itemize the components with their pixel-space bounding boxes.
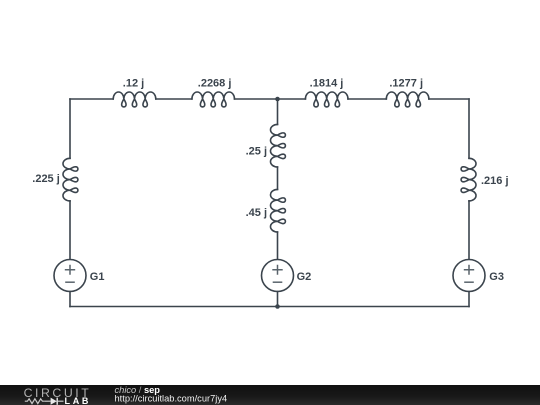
wire top rail right segment bbox=[429, 98, 469, 100]
wire middle branch top bbox=[277, 99, 279, 124]
source G3 bbox=[453, 260, 485, 292]
logo resistor zigzag bbox=[25, 398, 45, 403]
svg-text:G1: G1 bbox=[90, 271, 105, 283]
wire G1 to bottom rail bbox=[69, 292, 71, 307]
svg-text:.1277 j: .1277 j bbox=[389, 77, 423, 89]
source G1 bbox=[54, 260, 86, 292]
inductor L3 .1814 j bbox=[305, 92, 348, 107]
wire left rail lower bbox=[69, 201, 71, 260]
inductor L8 .216 j bbox=[461, 158, 476, 201]
svg-text:.216 j: .216 j bbox=[481, 175, 509, 187]
svg-text:http://circuitlab.com/cur7jy4: http://circuitlab.com/cur7jy4 bbox=[115, 393, 228, 403]
wire right rail upper bbox=[468, 99, 470, 158]
inductor L1 .12 j bbox=[113, 92, 156, 107]
wire top rail between L3 and L4 bbox=[348, 98, 386, 100]
wire middle branch between coils bbox=[277, 167, 279, 189]
inductor L7 .45 j bbox=[271, 189, 286, 232]
wire G3 to bottom rail bbox=[468, 292, 470, 307]
svg-text:LAB: LAB bbox=[65, 396, 92, 405]
svg-text:G3: G3 bbox=[489, 271, 504, 283]
node junction top middle bbox=[275, 97, 280, 102]
node junction bottom middle bbox=[275, 304, 280, 309]
logo diode triangle bbox=[51, 397, 57, 404]
svg-text:.2268 j: .2268 j bbox=[198, 77, 232, 89]
inductor L5 .225 j bbox=[63, 158, 78, 201]
logo diode cathode bar bbox=[56, 397, 58, 404]
svg-text:.225 j: .225 j bbox=[32, 173, 60, 185]
wire top rail between L2 and L3 (through node) bbox=[235, 98, 306, 100]
inductor L2 .2268 j bbox=[192, 92, 235, 107]
svg-text:.45 j: .45 j bbox=[246, 207, 267, 219]
wire G2 to bottom rail bbox=[277, 292, 279, 307]
wire left rail upper bbox=[69, 99, 71, 158]
svg-text:.25 j: .25 j bbox=[246, 145, 267, 157]
svg-text:.1814 j: .1814 j bbox=[310, 77, 344, 89]
logo wire diode to LAB bbox=[58, 400, 64, 402]
svg-text:G2: G2 bbox=[297, 271, 312, 283]
inductor L4 .1277 j bbox=[386, 92, 429, 107]
source G2 bbox=[262, 260, 294, 292]
footer bar bbox=[0, 385, 540, 405]
wire top rail left segment bbox=[70, 98, 113, 100]
wire bottom rail bbox=[70, 306, 469, 308]
logo wire to diode bbox=[45, 400, 51, 402]
wire middle branch to G2 bbox=[277, 232, 279, 260]
inductor L6 .25 j bbox=[271, 124, 286, 167]
wire right rail lower bbox=[468, 201, 470, 260]
svg-text:.12 j: .12 j bbox=[123, 77, 144, 89]
wire top rail between L1 and L2 bbox=[156, 98, 192, 100]
